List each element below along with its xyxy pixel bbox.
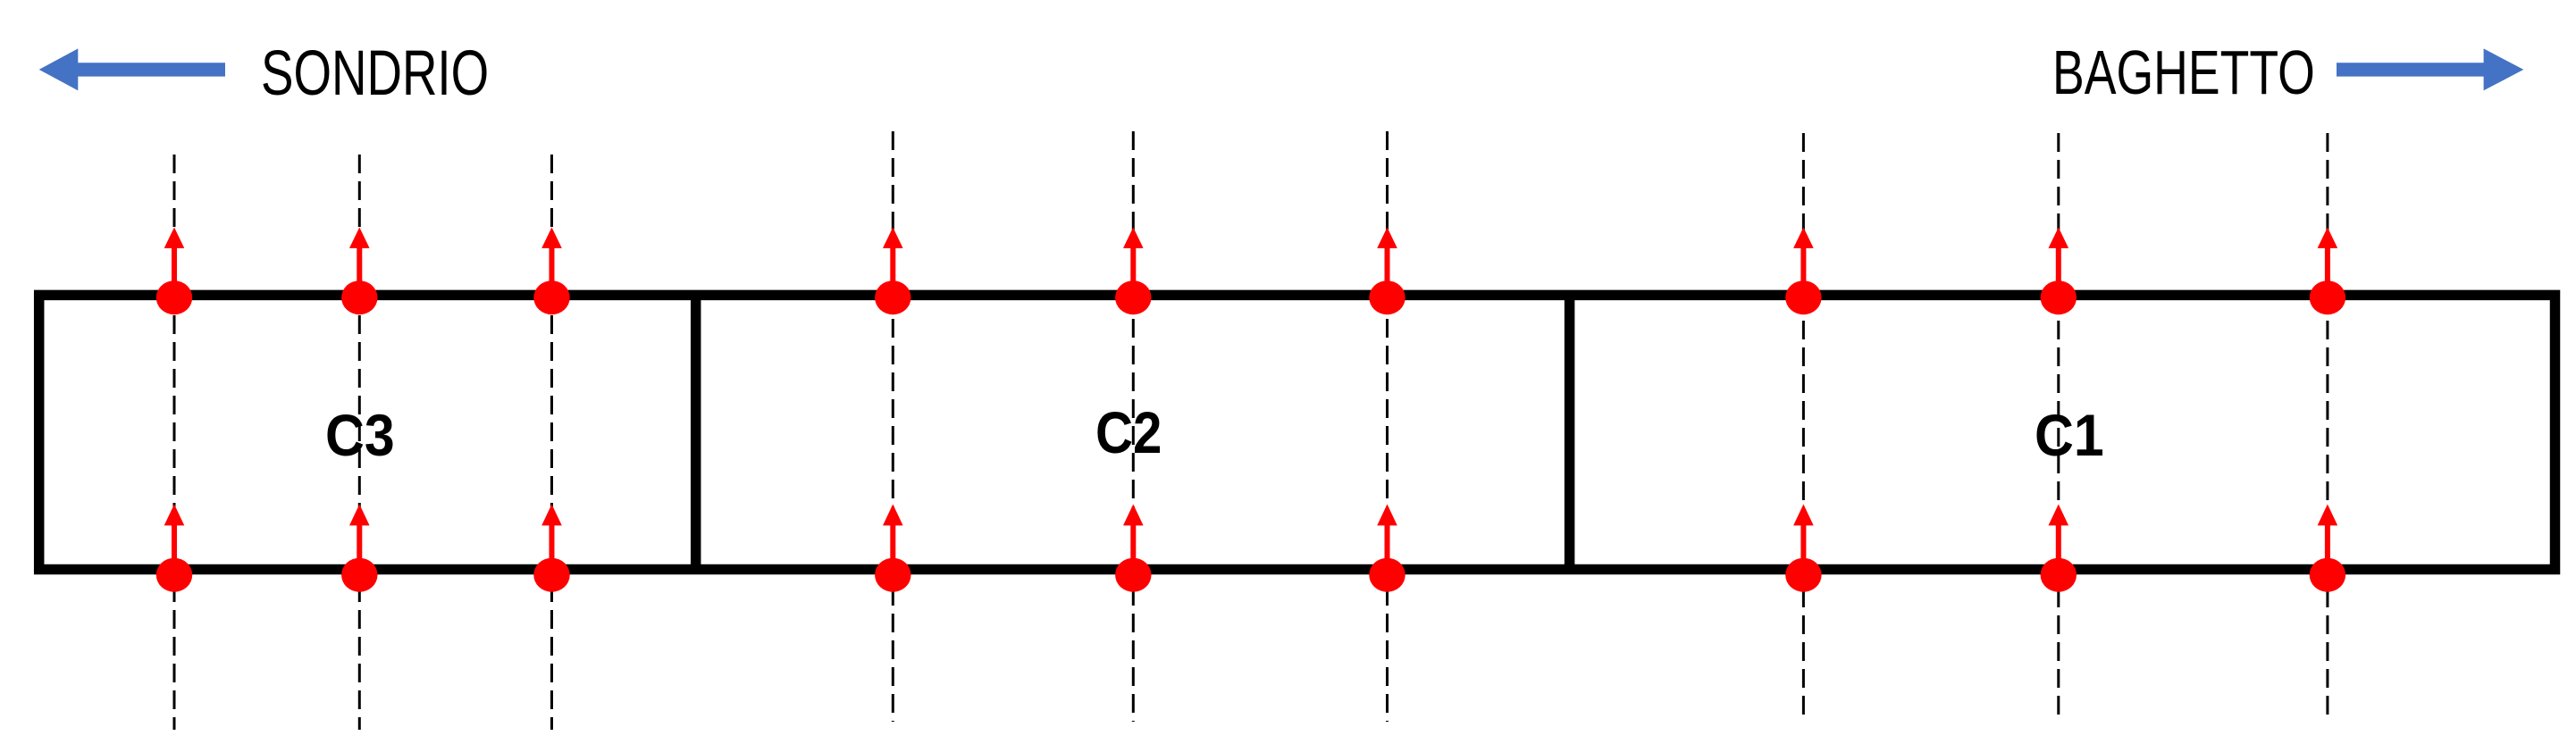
svg-text:C2: C2 (1095, 401, 1162, 466)
svg-text:C3: C3 (325, 404, 395, 468)
svg-text:SONDRIO: SONDRIO (261, 38, 489, 108)
svg-text:C1: C1 (2035, 404, 2104, 468)
svg-text:BAGHETTO: BAGHETTO (2052, 38, 2315, 107)
